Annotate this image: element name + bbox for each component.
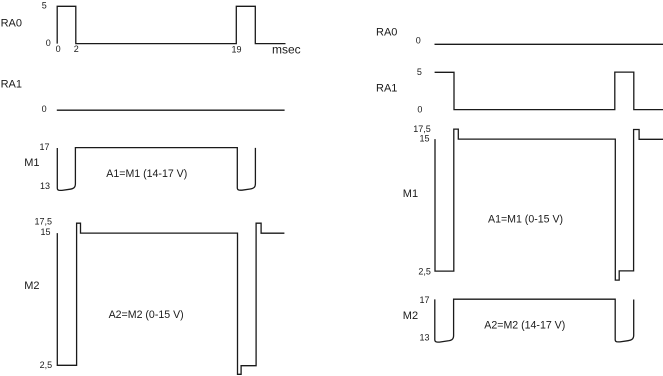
svg-text:0: 0 [46,38,51,48]
svg-text:M2: M2 [24,280,39,292]
waveform RA0 left [57,6,285,43]
waveform M1 right [435,129,663,280]
svg-text:0: 0 [42,104,47,114]
svg-text:17,5: 17,5 [413,124,431,134]
svg-text:RA0: RA0 [1,18,22,30]
waveform M2 right [435,299,634,342]
svg-text:0: 0 [56,44,61,54]
waveform M1 left [57,148,255,191]
svg-text:A1=M1 (14-17 V): A1=M1 (14-17 V) [106,168,187,180]
svg-text:15: 15 [419,134,429,144]
waveform RA1 right [435,72,663,110]
svg-text:2: 2 [74,44,79,54]
svg-text:5: 5 [42,1,47,11]
svg-text:13: 13 [40,181,50,191]
svg-text:19: 19 [231,45,241,55]
svg-text:A1=M1 (0-15 V): A1=M1 (0-15 V) [488,214,563,226]
waveform RA0 right [435,43,663,45]
svg-text:2,5: 2,5 [40,360,53,370]
svg-text:M1: M1 [24,157,39,169]
svg-text:RA1: RA1 [1,79,22,91]
svg-text:A2=M2 (14-17 V): A2=M2 (14-17 V) [484,320,565,332]
svg-text:2,5: 2,5 [418,266,431,276]
waveform RA1 left [57,109,285,111]
svg-text:0: 0 [416,35,421,45]
svg-text:0: 0 [417,104,422,114]
svg-text:5: 5 [417,67,422,77]
svg-text:17,5: 17,5 [34,217,52,227]
svg-text:RA0: RA0 [376,27,397,39]
svg-text:13: 13 [419,332,429,342]
svg-text:msec: msec [272,43,301,57]
waveform M2 left [57,223,284,374]
svg-text:M1: M1 [403,188,418,200]
svg-text:A2=M2 (0-15 V): A2=M2 (0-15 V) [109,309,184,321]
svg-text:RA1: RA1 [376,82,397,94]
svg-text:17: 17 [39,142,49,152]
svg-text:M2: M2 [403,310,418,322]
svg-text:17: 17 [419,295,429,305]
svg-text:15: 15 [40,227,50,237]
